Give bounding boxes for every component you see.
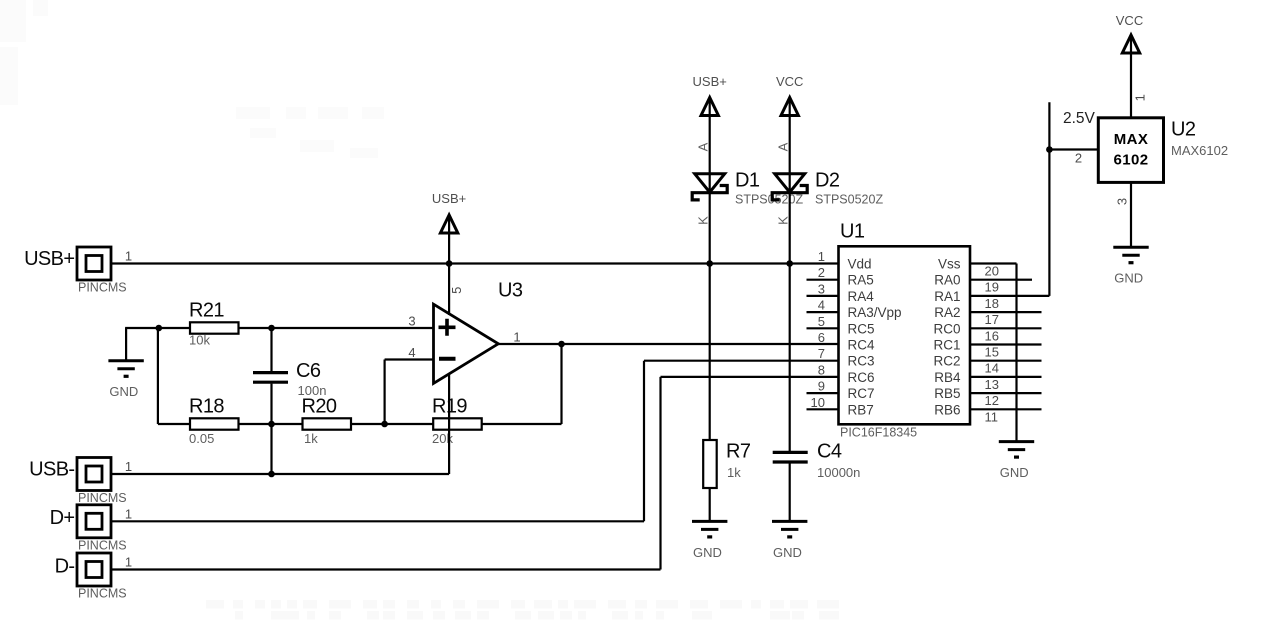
svg-text:RA3/Vpp: RA3/Vpp — [848, 305, 902, 320]
power arrow USB+ above D1 — [693, 74, 727, 115]
IC U1 PIC16F18345 body — [839, 221, 971, 440]
wire U1 pin 10 stub — [807, 408, 839, 410]
svg-text:VCC: VCC — [1116, 13, 1143, 28]
wire U1 pin 15 to bus — [970, 343, 1017, 345]
ground GND (left) — [108, 361, 143, 399]
junction VCC-D2 / Vdd rail — [786, 260, 793, 267]
svg-text:PIC16F18345: PIC16F18345 — [840, 425, 917, 439]
svg-text:5: 5 — [449, 287, 464, 294]
wire U1 pin 9 stub — [807, 392, 839, 394]
svg-text:RC3: RC3 — [848, 354, 875, 369]
wire arrow stem to junction — [448, 233, 450, 264]
svg-text:10k: 10k — [189, 332, 210, 347]
junction +in / C6 top — [268, 325, 275, 332]
junction 2.5V node — [1046, 146, 1053, 153]
svg-text:GND: GND — [773, 545, 802, 560]
wire D+ to U1 RC3 (pin 7) — [644, 360, 839, 362]
op-amp U3 — [434, 279, 523, 383]
svg-text:RC0: RC0 — [933, 321, 960, 336]
svg-text:RC1: RC1 — [933, 338, 960, 353]
wire D1 vertical USB+ to R7 — [709, 116, 711, 441]
svg-text:R18: R18 — [189, 396, 224, 418]
connector D+ (PINCMS) — [50, 505, 133, 553]
svg-text:RC6: RC6 — [848, 370, 875, 385]
svg-text:D+: D+ — [50, 507, 75, 529]
svg-text:RB6: RB6 — [934, 402, 960, 417]
svg-text:3: 3 — [1114, 198, 1129, 205]
wire pin 11 stub — [1017, 408, 1042, 410]
diode D2 (schottky) — [772, 174, 807, 200]
junction USB+ / D1 cathode — [706, 260, 713, 267]
diode D1 (schottky) — [692, 174, 727, 200]
wire R7 to GND — [709, 488, 711, 521]
svg-text:D-: D- — [55, 556, 75, 578]
connector USB+ (PINCMS) — [24, 247, 132, 295]
svg-text:RB5: RB5 — [934, 386, 960, 401]
svg-text:U1: U1 — [840, 221, 865, 243]
svg-text:9: 9 — [818, 379, 825, 394]
svg-text:RC4: RC4 — [848, 338, 875, 353]
wire D- net horizontal — [111, 568, 661, 570]
wire R20-R19 — [351, 423, 433, 425]
svg-text:5: 5 — [818, 314, 825, 329]
svg-text:1: 1 — [513, 329, 520, 344]
power arrow USB+ above U3 — [432, 191, 466, 233]
svg-text:GND: GND — [109, 384, 138, 399]
junction -in feedback node — [381, 421, 388, 428]
svg-text:RA2: RA2 — [934, 305, 960, 320]
svg-text:K: K — [696, 216, 711, 225]
wire 2.5V node vertical — [1048, 102, 1050, 296]
wire pin 14 stub — [1017, 360, 1042, 362]
wire U1 pin 16 to bus — [970, 327, 1017, 329]
svg-text:A: A — [695, 142, 710, 151]
svg-text:2: 2 — [1075, 151, 1082, 166]
svg-text:MAX6102: MAX6102 — [1171, 143, 1228, 158]
svg-text:RA4: RA4 — [848, 289, 875, 304]
svg-text:PINCMS: PINCMS — [78, 281, 127, 295]
wire U1 pin 19 to bus — [970, 279, 1017, 281]
wire pin 19 stub — [1017, 279, 1033, 281]
junction R18/R20/C6 — [268, 421, 275, 428]
ground GND (R7) — [692, 521, 727, 559]
wire feedback to output — [560, 344, 562, 424]
wire GND stub to R21 node — [125, 327, 159, 329]
wire U1 pin 18 to bus — [970, 295, 1017, 297]
svg-text:PINCMS: PINCMS — [78, 538, 127, 552]
wire pin 13 stub — [1017, 376, 1042, 378]
wire U1 pin 12 to bus — [970, 392, 1017, 394]
ground GND (C4) — [772, 521, 807, 559]
junction node R21/R18 left — [156, 325, 163, 332]
svg-text:RC7: RC7 — [848, 386, 875, 401]
svg-text:A: A — [775, 142, 790, 151]
svg-text:6102: 6102 — [1114, 151, 1149, 168]
wire R21 to op-amp +in (pin 3 net) — [239, 327, 434, 329]
svg-text:3: 3 — [818, 281, 825, 296]
svg-text:1k: 1k — [304, 431, 318, 446]
wire D+ net vertical — [643, 361, 645, 522]
svg-text:USB-: USB- — [29, 459, 74, 481]
svg-text:USB+: USB+ — [432, 191, 466, 206]
voltage reference U2 MAX6102 — [1098, 118, 1163, 183]
svg-text:4: 4 — [408, 345, 415, 360]
capacitor C6 — [253, 360, 326, 398]
ground GND (U1) — [999, 442, 1034, 480]
wire U1 pin 17 to bus — [970, 311, 1017, 313]
arrow USB+ — [701, 98, 718, 116]
arrow USB+ — [440, 215, 457, 233]
wire to op-amp -in (pin 4 net) — [385, 358, 434, 360]
svg-text:1: 1 — [125, 555, 132, 570]
svg-text:C6: C6 — [296, 360, 321, 382]
svg-text:RB7: RB7 — [848, 402, 874, 417]
svg-text:0.05: 0.05 — [189, 431, 214, 446]
svg-text:4: 4 — [818, 298, 825, 313]
svg-text:R7: R7 — [726, 441, 751, 463]
wire ground bus vertical — [1015, 264, 1017, 442]
resistor R19 — [432, 396, 482, 447]
svg-text:2: 2 — [818, 265, 825, 280]
svg-text:16: 16 — [985, 328, 999, 343]
ground GND (U2) — [1113, 247, 1148, 285]
wire pin 15 stub — [1017, 343, 1042, 345]
svg-text:1k: 1k — [727, 465, 741, 480]
junction USB+ / op-amp supply — [446, 260, 453, 267]
wire C6 top lead — [270, 328, 272, 371]
wire D+ net horizontal — [111, 520, 644, 522]
svg-text:14: 14 — [985, 361, 999, 376]
wire D- to U1 RC6 (pin 8) — [661, 376, 839, 378]
wire R18-R20 — [239, 423, 303, 425]
wire U2 pin 1 to VCC — [1130, 53, 1132, 118]
power arrow VCC above U2 — [1116, 13, 1143, 53]
svg-text:D1: D1 — [735, 169, 760, 191]
resistor R21 — [189, 299, 239, 347]
wire GND stem — [125, 328, 127, 361]
svg-text:RA1: RA1 — [934, 289, 960, 304]
svg-text:1: 1 — [818, 249, 825, 264]
svg-text:12: 12 — [985, 393, 999, 408]
svg-text:10000n: 10000n — [817, 465, 860, 480]
svg-text:PINCMS: PINCMS — [78, 491, 127, 505]
junction output/feedback — [558, 341, 565, 348]
wire U1 pin 5 stub — [807, 327, 839, 329]
svg-text:11: 11 — [985, 409, 999, 424]
svg-text:1: 1 — [125, 249, 132, 264]
svg-text:3: 3 — [408, 313, 415, 328]
wire R21 left lead — [159, 327, 190, 329]
wire op-amp V+ pin 5 — [448, 264, 450, 316]
wire D- net vertical — [659, 377, 661, 570]
resistor R18 — [189, 396, 239, 447]
wire RA1 pin 18 to 2.5V node — [1017, 295, 1050, 297]
svg-text:1: 1 — [1132, 94, 1147, 101]
svg-text:6: 6 — [818, 330, 825, 345]
svg-text:19: 19 — [985, 280, 999, 295]
svg-text:Vss: Vss — [938, 257, 961, 272]
svg-text:13: 13 — [985, 377, 999, 392]
wire USB+ net: connector to U1 pin 1 Vdd — [111, 262, 839, 264]
wire R18 left lead — [158, 423, 190, 425]
svg-text:RA0: RA0 — [934, 273, 960, 288]
svg-text:GND: GND — [1114, 271, 1143, 286]
svg-text:RA5: RA5 — [848, 273, 874, 288]
capacitor C4 — [773, 441, 861, 480]
svg-text:USB+: USB+ — [693, 74, 727, 89]
svg-text:8: 8 — [818, 362, 825, 377]
svg-text:D2: D2 — [815, 169, 840, 191]
junction USB- / divider bottom — [268, 471, 275, 478]
arrow VCC — [1122, 35, 1139, 53]
svg-text:18: 18 — [985, 296, 999, 311]
wire U1 pin 13 to bus — [970, 376, 1017, 378]
svg-text:STPS0520Z: STPS0520Z — [815, 193, 883, 207]
wire pin 17 stub — [1017, 311, 1042, 313]
connector D- (PINCMS) — [55, 553, 133, 601]
svg-text:7: 7 — [818, 346, 825, 361]
wire C4 to GND — [789, 462, 791, 521]
svg-text:GND: GND — [1000, 465, 1029, 480]
svg-text:RC5: RC5 — [848, 321, 875, 336]
wire pin 12 stub — [1017, 392, 1042, 394]
wire USB- net — [111, 473, 449, 475]
svg-text:20k: 20k — [432, 431, 453, 446]
svg-text:USB+: USB+ — [24, 248, 74, 270]
wire U1 pin 2 stub — [807, 279, 839, 281]
wire D2 vertical VCC to C4 — [789, 116, 791, 452]
svg-text:2.5V: 2.5V — [1063, 110, 1096, 127]
svg-text:STPS0520Z: STPS0520Z — [735, 193, 803, 207]
svg-text:MAX: MAX — [1114, 131, 1149, 148]
wire C6 bottom lead — [270, 384, 272, 424]
svg-text:R20: R20 — [302, 396, 337, 418]
svg-text:17: 17 — [985, 312, 999, 327]
wire R19 right lead — [482, 423, 562, 425]
svg-text:1: 1 — [125, 506, 132, 521]
svg-text:15: 15 — [985, 345, 999, 360]
svg-text:Vdd: Vdd — [848, 257, 872, 272]
wire U1 pin 3 stub — [807, 295, 839, 297]
wire U2 pin 2 to 2.5V node — [1049, 148, 1098, 150]
resistor R7 — [703, 440, 751, 488]
svg-text:GND: GND — [693, 545, 722, 560]
arrow VCC — [781, 98, 798, 116]
svg-text:1: 1 — [125, 459, 132, 474]
wire left node vertical — [157, 328, 159, 424]
svg-text:RB4: RB4 — [934, 370, 961, 385]
svg-text:U3: U3 — [498, 279, 523, 301]
power arrow VCC above D2 — [776, 74, 803, 115]
resistor R20 — [302, 396, 352, 447]
svg-text:PINCMS: PINCMS — [78, 587, 127, 601]
wire divider bottom vertical — [270, 424, 272, 474]
connector USB- (PINCMS) — [29, 458, 132, 506]
wire U1 pin 4 stub — [807, 311, 839, 313]
svg-text:K: K — [776, 216, 791, 225]
svg-text:VCC: VCC — [776, 74, 803, 89]
wire U1 pin 14 to bus — [970, 360, 1017, 362]
svg-text:RC2: RC2 — [933, 354, 960, 369]
svg-text:U2: U2 — [1171, 118, 1196, 140]
wire pin 16 stub — [1017, 327, 1042, 329]
wire -in node vertical — [384, 360, 386, 425]
wire U2 pin 3 to GND — [1130, 182, 1132, 247]
wire U1 pin 20 to bus — [970, 262, 1017, 264]
wire op-amp V- to USB- — [448, 374, 450, 474]
svg-text:20: 20 — [985, 264, 999, 279]
svg-text:R21: R21 — [189, 299, 224, 321]
svg-text:10: 10 — [811, 395, 825, 410]
wire op-amp output to U1 RC4 (pin 6) — [497, 343, 839, 345]
svg-text:C4: C4 — [817, 441, 842, 463]
wire U1 pin 11 to bus — [970, 408, 1017, 410]
